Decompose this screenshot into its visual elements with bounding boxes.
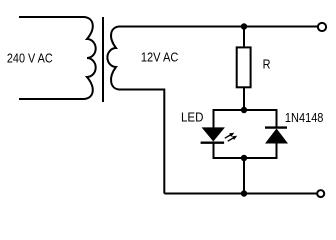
wire LED block to bottom rail (243, 158, 245, 194)
junction node at bottom rail (241, 190, 247, 196)
transformer T1 primary winding (240V) (84, 17, 96, 99)
wire primary bottom lead (19, 98, 84, 100)
svg-text:240 V AC: 240 V AC (7, 50, 53, 65)
LED D1 cathode bar (201, 141, 225, 143)
wire LED cathode lead (213, 143, 215, 158)
junction node at block bottom (241, 155, 247, 161)
wire resistor to LED block top (243, 87, 245, 110)
junction node at block top (241, 107, 247, 113)
wire primary top lead (19, 16, 84, 18)
LED emission arrow 1 (225, 133, 234, 138)
wire top junction to resistor (243, 27, 245, 47)
resistor R (237, 47, 251, 87)
wire secondary bottom to bottom rail (118, 90, 164, 194)
wire diode anode lead (276, 144, 278, 159)
transformer T1 secondary winding (12V) (107, 27, 119, 90)
wire diode cathode lead (276, 110, 278, 128)
svg-text:LED: LED (181, 110, 204, 125)
svg-text:R: R (263, 56, 271, 71)
diode 1N4148 triangle (265, 129, 288, 144)
wire LED block bottom bar (213, 157, 278, 159)
LED emission arrow 2 (228, 136, 237, 141)
diode 1N4148 cathode bar (265, 126, 287, 128)
junction node at top rail (241, 23, 247, 29)
terminal bottom right (317, 190, 324, 197)
wire bottom rail (164, 193, 317, 195)
wire LED block top bar (213, 109, 278, 111)
wire top rail from secondary to terminal (118, 26, 318, 28)
terminal top right (318, 23, 326, 31)
wire LED anode lead (213, 110, 215, 128)
LED D1 triangle (202, 127, 225, 141)
svg-text:1N4148: 1N4148 (285, 110, 324, 125)
transformer core (102, 17, 104, 102)
svg-text:12V AC: 12V AC (141, 49, 179, 64)
